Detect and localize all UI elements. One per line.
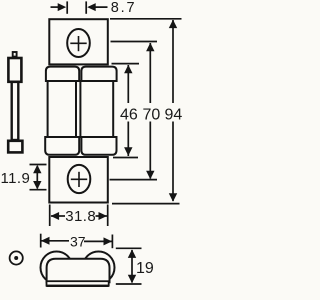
dim 19 up arrowhead: [128, 249, 136, 258]
orientation symbol circle: [10, 251, 23, 264]
dim 70 up arrowhead: [146, 43, 154, 52]
svg-text:19: 19: [136, 260, 154, 277]
top hole cross horizontal: [70, 42, 86, 44]
dim 70 bottom extension line: [110, 179, 158, 181]
dim 8.7 right-pointing arrowhead: [58, 3, 66, 11]
end view base plate: [47, 281, 109, 286]
dim 46 down arrowhead: [124, 147, 132, 156]
dim 31.8 right extension line: [107, 205, 109, 227]
bottom mounting block: [49, 157, 108, 203]
side view bottom block: [8, 141, 22, 153]
dim 37 right arrowhead: [104, 237, 113, 245]
dim 31.8 right arrow line: [96, 215, 108, 217]
orientation symbol dot: [14, 256, 18, 260]
top hole ellipse: [67, 29, 90, 57]
dim 8.7 left tick: [66, 1, 68, 13]
dim 46 line lower segment: [127, 122, 129, 157]
dim 37 right arrow line: [84, 240, 112, 242]
svg-text:46: 46: [120, 107, 138, 124]
dim 70 top extension line: [111, 41, 158, 43]
dim 31.8 right arrowhead: [99, 212, 108, 220]
svg-text:94: 94: [165, 107, 183, 124]
end view base bottom thick edge: [46, 285, 109, 287]
end view left circle: [41, 252, 73, 284]
top cap right: [81, 67, 116, 81]
bottom hole cross horizontal: [71, 178, 87, 180]
bottom cap right: [81, 137, 116, 155]
dim 11.9 down arrowhead: [33, 181, 41, 190]
svg-text:70: 70: [143, 107, 161, 124]
left cylinder body: [48, 81, 76, 137]
top hole cross vertical: [78, 36, 80, 51]
svg-text:11.9: 11.9: [1, 170, 31, 187]
dim 94 line lower segment: [172, 122, 174, 202]
end view right circle: [83, 252, 115, 284]
dim 46 top extension line: [112, 63, 140, 65]
side view top block: [8, 58, 21, 82]
svg-text:37: 37: [70, 234, 86, 250]
dim 70 down arrowhead: [146, 171, 154, 180]
dim 46 up arrowhead: [124, 65, 132, 74]
dim 19 down arrowhead: [128, 275, 136, 284]
dim 94 down arrowhead: [169, 193, 177, 202]
dim 19 arrow line: [131, 250, 133, 283]
dim 37 left arrow line: [42, 240, 70, 242]
dim 37 right tick: [111, 235, 113, 249]
svg-text:8.7: 8.7: [111, 0, 137, 16]
dim 19 bottom extension line: [116, 283, 142, 285]
dim 11.9 top tick: [30, 164, 47, 166]
dim 8.7 right arrow line: [89, 6, 108, 8]
side view top nub: [13, 52, 17, 57]
svg-text:31.8: 31.8: [65, 208, 96, 225]
top mounting block: [49, 19, 108, 64]
dim 70 line lower segment: [149, 122, 151, 179]
dim 11.9 bottom tick: [30, 189, 47, 191]
right cylinder body: [80, 81, 113, 137]
dim 11.9 up arrowhead: [33, 165, 41, 174]
dim 11.9 arrow line: [36, 166, 38, 189]
dim 94 top extension line: [110, 18, 182, 20]
dim 70 line upper segment: [149, 43, 151, 103]
end view body rounded rect: [47, 259, 110, 283]
side view stem: [12, 82, 19, 140]
dim 46 bottom extension line: [113, 157, 138, 159]
dim 31.8 left arrow line: [51, 215, 65, 217]
bottom hole ellipse: [68, 165, 91, 193]
dim 8.7 left arrow line: [51, 6, 63, 8]
dim 46 line upper segment: [127, 65, 129, 103]
dim 8.7 left-pointing arrowhead: [87, 3, 96, 11]
dim 37 left arrowhead: [41, 237, 50, 245]
top cap left: [46, 67, 79, 81]
dim 8.7 right tick: [85, 1, 87, 13]
bottom cap left: [45, 137, 79, 155]
dim 94 up arrowhead: [169, 20, 177, 29]
dim 94 bottom extension line: [112, 203, 180, 205]
bottom hole cross vertical: [78, 172, 80, 187]
dim 37 left tick: [40, 234, 42, 248]
dim 31.8 left extension line: [49, 205, 51, 227]
dim 94 line upper segment: [172, 20, 174, 103]
dim 31.8 left arrowhead: [51, 212, 60, 220]
dim 19 top extension line: [116, 247, 142, 249]
